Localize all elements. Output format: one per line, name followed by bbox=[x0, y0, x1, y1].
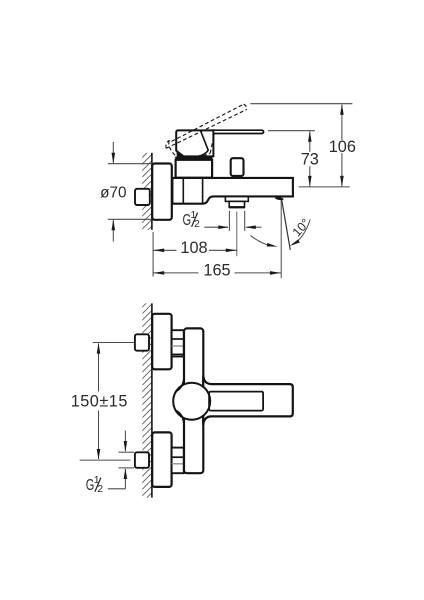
wall hatch (side view) bbox=[142, 153, 152, 230]
handle cap bar bbox=[175, 157, 212, 161]
dim 150pm15 line upper bbox=[98, 344, 100, 392]
dimension ext line lever top bbox=[268, 130, 315, 132]
svg-text:165: 165 bbox=[203, 261, 230, 279]
raised knob dashed left arc bbox=[169, 141, 179, 158]
dimension ext line body axis bbox=[299, 186, 350, 188]
svg-text:2: 2 bbox=[97, 483, 103, 495]
dimension ext line flange bottom bbox=[108, 218, 152, 220]
G half ext line left (top view) bbox=[228, 211, 230, 231]
G half upper arrow (front view) bbox=[124, 431, 126, 452]
dim 106 line lower bbox=[341, 153, 343, 186]
G half ext line top (front view) bbox=[119, 451, 135, 453]
diverter stem right bbox=[240, 176, 242, 178]
upper flange (front view) bbox=[152, 314, 171, 370]
angle arc left bbox=[251, 236, 271, 246]
handle lever (front view) bbox=[203, 376, 293, 426]
angle arc right bbox=[292, 220, 310, 245]
angle arc left arrowhead bbox=[267, 243, 278, 248]
dim 73 line lower bbox=[309, 166, 311, 186]
aerator bottom bar bbox=[229, 206, 245, 208]
dim 150pm15 ext line bottom bbox=[80, 459, 131, 461]
wall hatch (front view) bbox=[142, 303, 152, 497]
tube-circle flare top bbox=[176, 377, 184, 392]
dim 106 line upper bbox=[341, 105, 343, 140]
dim 165 line bbox=[153, 272, 198, 274]
angle arc right arrowhead bbox=[289, 239, 300, 247]
label G half (top view) bbox=[183, 209, 201, 230]
handle knob (side view) bbox=[176, 130, 213, 156]
svg-text:2: 2 bbox=[194, 218, 200, 230]
svg-text:108: 108 bbox=[180, 239, 207, 257]
svg-text:106: 106 bbox=[329, 138, 356, 156]
faucet body (side view) bbox=[172, 178, 293, 204]
tube-circle flare bottom bbox=[176, 411, 184, 426]
spout 10deg tilted line bbox=[282, 200, 291, 250]
dim 108 line bbox=[153, 249, 176, 251]
lower union connector bbox=[172, 448, 184, 474]
spout aerator bbox=[229, 201, 244, 207]
handle knob corner shade bbox=[176, 149, 184, 157]
body seam right bbox=[202, 178, 204, 204]
G half ext line right (top view) bbox=[244, 211, 246, 231]
svg-text:ø70: ø70 bbox=[100, 185, 126, 202]
raised handle dashed tip bbox=[244, 104, 247, 109]
dim 150pm15 ext line top bbox=[93, 342, 135, 344]
dia70 upper arrow line bbox=[112, 142, 114, 163]
G half right arrow (top view) bbox=[246, 226, 261, 228]
supply fitting (side view) bbox=[135, 189, 150, 205]
upper supply fitting (front view) bbox=[135, 334, 149, 350]
G half left arrow (top view) bbox=[204, 226, 228, 228]
diverter stem left bbox=[232, 176, 234, 178]
svg-text:73: 73 bbox=[301, 151, 319, 169]
spout outlet flange bbox=[225, 197, 248, 202]
G half ext line bottom (front view) bbox=[119, 467, 135, 469]
dim 150pm15 line lower bbox=[98, 411, 100, 460]
lower supply fitting (front view) bbox=[135, 452, 149, 468]
dia70 lower arrow line bbox=[112, 220, 114, 242]
handle knob face line bbox=[195, 131, 209, 157]
raised knob dashed right edge bbox=[210, 134, 214, 153]
raised handle dashed upper edge bbox=[172, 104, 244, 141]
dimension ext line flange top bbox=[108, 163, 152, 165]
raised handle dashed lower edge bbox=[166, 109, 247, 148]
handle lever (side view) bbox=[213, 130, 263, 133]
vertical body tube (front view) bbox=[184, 328, 203, 473]
wall face line (side view) bbox=[151, 153, 153, 230]
diverter knob (side view) bbox=[231, 158, 244, 176]
spout lip blob bbox=[275, 197, 284, 201]
dim 73 line upper bbox=[309, 132, 311, 152]
cartridge circle (front view) bbox=[173, 383, 210, 420]
lever inner rectangle bbox=[209, 392, 263, 411]
G half lower arrow (front view) bbox=[124, 469, 126, 489]
upper union connector bbox=[172, 330, 184, 356]
vertical reference line at body right bbox=[280, 200, 282, 278]
wall face line (front view) bbox=[151, 303, 153, 497]
label G half (front view) bbox=[86, 474, 104, 495]
raised handle dashed left cap bbox=[166, 141, 172, 149]
body seam left bbox=[182, 178, 184, 204]
dimension ext line raised handle tip bbox=[250, 103, 352, 105]
raised knob dashed bottom bbox=[178, 153, 210, 158]
G half leader (front view) bbox=[108, 488, 126, 490]
lower flange (front view) bbox=[152, 432, 171, 487]
wall ext line below (top view) bbox=[152, 232, 154, 277]
wall flange escutcheon (side view) bbox=[152, 164, 172, 220]
cartridge collar (side view) bbox=[176, 160, 213, 178]
svg-text:150±15: 150±15 bbox=[71, 393, 128, 411]
spout centerline bbox=[236, 212, 238, 257]
